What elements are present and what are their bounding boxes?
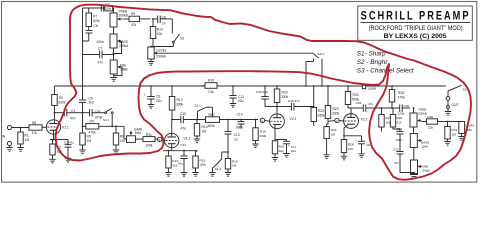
- resistor R20 330k plate load: [274, 89, 280, 103]
- resistor R3 1k5 cathode: [50, 144, 55, 155]
- capacitor C6 100n: [86, 30, 93, 32]
- svg-text:V2.1: V2.1: [290, 117, 297, 121]
- svg-text:330k: 330k: [176, 102, 184, 106]
- svg-text:R12: R12: [177, 98, 183, 102]
- svg-text:470k: 470k: [398, 96, 406, 100]
- svg-text:3k3: 3k3: [172, 163, 177, 167]
- svg-text:620k: 620k: [59, 100, 67, 104]
- resistor R1 1M: [18, 132, 23, 144]
- capacitor C12 22u filter: [232, 86, 234, 96]
- svg-text:22u: 22u: [238, 99, 244, 103]
- wire stack2 top: [382, 107, 400, 109]
- capacitor C5 2n2 to tone stack: [79, 99, 86, 101]
- svg-text:47k: 47k: [131, 23, 137, 27]
- svg-text:1350B: 1350B: [367, 87, 376, 91]
- node stack2 in: [381, 107, 383, 109]
- resistor R16b 1M: [227, 151, 229, 153]
- svg-text:C19 2n2: C19 2n2: [256, 90, 268, 94]
- resistor R4 470k: [86, 124, 99, 129]
- potentiometer LEVEL 200kA: [150, 46, 152, 48]
- svg-text:2n2: 2n2: [89, 100, 95, 104]
- svg-text:+: +: [288, 144, 290, 148]
- switch S1.1: [105, 112, 107, 114]
- capacitor C1 47n coupling: [54, 112, 64, 114]
- svg-text:C8: C8: [162, 15, 166, 19]
- capacitor C14 680p: [240, 120, 242, 122]
- svg-text:47u: 47u: [178, 161, 183, 165]
- svg-text:+: +: [355, 138, 357, 142]
- jack IN: [7, 125, 11, 129]
- capacitor C21 150n: [393, 127, 400, 132]
- node connector 2 V2.1 grid: [260, 118, 264, 122]
- svg-text:1M: 1M: [87, 139, 92, 143]
- svg-text:200kB: 200kB: [119, 13, 129, 17]
- svg-text:47u: 47u: [181, 127, 187, 131]
- resistor R23 330k: [325, 106, 330, 119]
- svg-text:220p: 220p: [105, 7, 111, 11]
- svg-text:R11: R11: [146, 133, 152, 137]
- svg-text:R9: R9: [131, 12, 135, 16]
- svg-text:220p: 220p: [398, 112, 405, 116]
- svg-text:S1.2: S1.2: [215, 167, 222, 171]
- border frame: [2, 2, 477, 183]
- svg-text:R2: R2: [59, 96, 63, 100]
- svg-text:1n: 1n: [234, 137, 238, 141]
- resistor R24 1M: [324, 127, 329, 139]
- resistor R21 3k3 cathode: [274, 129, 276, 141]
- capacitor C13 1n: [227, 120, 229, 132]
- capacitor 220p box: [105, 6, 113, 11]
- svg-text:C21: C21: [397, 127, 403, 131]
- potentiometer MID2 25kB: [413, 148, 415, 161]
- triode V2.1: [270, 114, 285, 129]
- svg-text:150n: 150n: [396, 138, 403, 142]
- svg-text:1MA: 1MA: [135, 131, 143, 135]
- capacitor C2 47u cathode bypass: [50, 139, 68, 141]
- capacitor C8 1n: [157, 16, 159, 24]
- capacitor C17 22u cathode bypass: [275, 139, 287, 141]
- node C1/C4 junction: [82, 112, 84, 114]
- resistor R29 51k: [390, 115, 395, 128]
- svg-text:200kA: 200kA: [157, 55, 167, 59]
- svg-text:1M: 1M: [386, 120, 391, 124]
- ground stack2: [400, 172, 414, 174]
- potentiometer MID 25kB: [113, 48, 115, 60]
- potentiometer TREB 200kB: [113, 8, 115, 13]
- switch S3.2: [448, 85, 462, 91]
- svg-text:S2: S2: [180, 37, 184, 41]
- svg-text:LEVEL: LEVEL: [157, 49, 167, 53]
- capacitor C10 47u coupling: [172, 119, 181, 121]
- resistor R22 330k: [311, 108, 317, 122]
- resistor R9 47k: [129, 16, 140, 21]
- svg-text:V1.1: V1.1: [62, 125, 69, 129]
- resistor R28 470k: [389, 90, 394, 103]
- capacitor C5a 1n5 trimmer: [100, 5, 102, 12]
- svg-text:C1: C1: [71, 109, 75, 113]
- svg-text:1M: 1M: [202, 129, 207, 133]
- svg-text:22u: 22u: [291, 149, 296, 153]
- potentiometer GAIN 1MA: [123, 126, 125, 139]
- svg-text:47k: 47k: [32, 131, 38, 135]
- svg-text:SCHRILL PREAMP: SCHRILL PREAMP: [361, 9, 471, 23]
- svg-text:S1.1: S1.1: [103, 118, 110, 122]
- svg-text:C11: C11: [181, 143, 187, 147]
- resistor R31 1M: [447, 121, 449, 123]
- triode V1.1: [46, 120, 60, 134]
- resistor R15 100k: [193, 156, 198, 168]
- svg-text:470p: 470p: [95, 115, 103, 119]
- capacitor C4 470p: [83, 112, 90, 114]
- resistor R12 330k plate load: [169, 97, 175, 111]
- svg-text:1k5: 1k5: [348, 147, 353, 151]
- triode V2.2: [344, 114, 359, 129]
- resistor R17 100k: [206, 117, 220, 123]
- capacitor C20 22u cathode bypass: [344, 135, 362, 137]
- svg-text:C2 47u: C2 47u: [64, 141, 74, 145]
- resistor R10 47k: [150, 27, 156, 39]
- resistor R2 620k plate load: [52, 95, 58, 106]
- svg-text:22u: 22u: [156, 99, 162, 103]
- svg-text:S3.1: S3.1: [195, 104, 202, 108]
- svg-text:330k: 330k: [260, 134, 267, 138]
- node connector 2 to V1.2 grid: [158, 137, 162, 141]
- node plate tap: [54, 112, 56, 114]
- svg-text:25kB: 25kB: [120, 68, 128, 72]
- switch S2 bright: [171, 19, 173, 34]
- potentiometer BASS2 1MA: [413, 127, 415, 134]
- resistor R26 1k5 cathode: [344, 124, 349, 139]
- resistor R6 1M: [113, 133, 118, 145]
- potentiometer LEVEL2 1MA: [448, 121, 462, 123]
- svg-text:C30: C30: [404, 104, 410, 108]
- resistor R11 100k: [143, 137, 155, 142]
- bus junction dots: [150, 85, 393, 87]
- switch S3.2 channel select mid: [313, 53, 319, 58]
- resistor R25 500k plate load: [345, 92, 350, 105]
- wire vertical feed x82: [82, 8, 84, 100]
- potentiometer BASS 200kA: [113, 27, 115, 34]
- svg-text:C16 47n: C16 47n: [288, 99, 300, 103]
- svg-text:22k: 22k: [428, 125, 433, 129]
- test point 1350B: [362, 85, 365, 88]
- svg-text:V1.2: V1.2: [184, 137, 191, 141]
- svg-text:R8: R8: [32, 121, 36, 125]
- svg-text:R28: R28: [398, 91, 404, 95]
- wire top horizontal: [83, 7, 114, 9]
- svg-text:BY LEKXS (C) 2005: BY LEKXS (C) 2005: [384, 33, 447, 40]
- svg-text:7,5k: 7,5k: [208, 90, 215, 94]
- svg-text:C6: C6: [94, 24, 98, 28]
- svg-text:OUT: OUT: [452, 103, 459, 107]
- switch S1.2: [216, 159, 223, 166]
- resistor R7 100k: [86, 13, 92, 27]
- capacitor C30 220p: [399, 105, 401, 112]
- svg-text:100n: 100n: [96, 40, 104, 44]
- capacitor C22 47n: [397, 151, 404, 153]
- series resistor R16 7k5 on bus: [205, 83, 217, 89]
- svg-text:1M: 1M: [232, 164, 237, 168]
- svg-text:1M: 1M: [25, 138, 30, 142]
- svg-text:680p: 680p: [236, 126, 244, 130]
- svg-text:C10: C10: [180, 112, 186, 116]
- svg-text:(ROCKFORD "TRIPLE GIANT" MOD): (ROCKFORD "TRIPLE GIANT" MOD): [369, 26, 463, 32]
- svg-text:47n: 47n: [98, 61, 104, 65]
- ground below LEVEL: [150, 59, 152, 62]
- resistor R19 330k grid leak: [255, 119, 257, 121]
- triode V1.2: [165, 133, 179, 147]
- wire into V2.1 grid: [241, 119, 258, 121]
- svg-text:1M: 1M: [452, 132, 457, 136]
- svg-text:100k: 100k: [199, 163, 206, 167]
- svg-text:S1- Sharp: S1- Sharp: [357, 50, 386, 57]
- svg-text:47k: 47k: [157, 32, 163, 36]
- node connector 2 V2.2 grid: [335, 118, 339, 122]
- capacitor C18 47n coupling to stack2: [351, 107, 356, 109]
- svg-text:47n: 47n: [394, 161, 399, 165]
- svg-text:25kB: 25kB: [423, 169, 430, 173]
- svg-text:R25: R25: [353, 93, 359, 97]
- svg-text:C4: C4: [96, 109, 100, 113]
- B+ bus wire: [54, 85, 446, 87]
- resistor R5 1M: [80, 133, 85, 145]
- svg-text:R17: R17: [209, 113, 215, 117]
- node plate tap V1.2: [171, 119, 173, 121]
- svg-text:V2.2: V2.2: [361, 118, 368, 122]
- capacitor C16 47n coupling: [277, 106, 292, 108]
- svg-text:C14: C14: [237, 112, 243, 116]
- svg-text:1M: 1M: [331, 132, 336, 136]
- ground below MID: [113, 74, 115, 78]
- svg-text:R22: R22: [318, 109, 324, 113]
- capacitor C11 47u cathode bypass: [183, 151, 185, 156]
- svg-text:47u: 47u: [368, 102, 373, 106]
- svg-text:100k: 100k: [93, 19, 101, 23]
- svg-text:200kB: 200kB: [418, 111, 427, 115]
- svg-text:1MA: 1MA: [422, 145, 429, 149]
- svg-text:R20: R20: [282, 90, 288, 94]
- svg-text:51k: 51k: [397, 120, 402, 124]
- svg-text:C18: C18: [356, 101, 362, 105]
- svg-text:200kA: 200kA: [119, 44, 129, 48]
- title underline: [361, 21, 471, 23]
- wire stage1 out node: [82, 113, 84, 133]
- svg-text:1n: 1n: [162, 21, 166, 25]
- svg-text:R30: R30: [428, 115, 434, 119]
- svg-text:+: +: [144, 93, 146, 97]
- svg-text:R4: R4: [90, 120, 94, 124]
- resistor R13 3k3 cathode: [163, 150, 197, 152]
- svg-text:S3.2: S3.2: [318, 52, 325, 56]
- capacitor C19 2n2: [264, 86, 266, 97]
- wire LEVEL wiper to S3.2: [159, 52, 314, 54]
- svg-text:330k: 330k: [332, 112, 340, 116]
- capacitor C9 22u filter: [150, 86, 152, 97]
- svg-text:C7: C7: [98, 47, 102, 51]
- svg-text:3k3: 3k3: [279, 149, 284, 153]
- title block box: [358, 6, 473, 40]
- resistor R27 1M: [379, 115, 384, 128]
- node junction R9 C8 R10: [152, 18, 154, 20]
- svg-text:R23: R23: [333, 107, 339, 111]
- svg-text:330k: 330k: [318, 114, 326, 118]
- wire IN to grid: [12, 127, 29, 129]
- resistor R30 22k: [427, 119, 438, 124]
- svg-text:R16: R16: [208, 79, 214, 83]
- potentiometer TREB2 200kB: [413, 108, 415, 113]
- svg-text:C22: C22: [393, 148, 399, 152]
- svg-text:47n: 47n: [70, 116, 76, 120]
- svg-text:100k: 100k: [208, 124, 216, 128]
- resistor R14 1M: [194, 124, 199, 137]
- svg-text:S2 - Bright: S2 - Bright: [357, 59, 387, 66]
- svg-text:100k: 100k: [145, 143, 153, 147]
- resistor R8 47k grid stopper: [29, 125, 42, 130]
- red annotation curve: [56, 5, 472, 180]
